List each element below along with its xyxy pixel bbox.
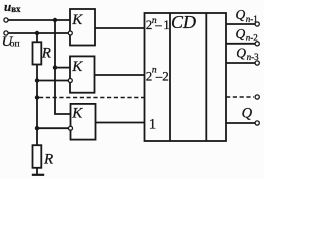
- output terminal Qn-2: [255, 42, 259, 46]
- encoder CD block: [145, 13, 227, 141]
- svg-text:–: –: [154, 17, 162, 32]
- label Qn-1: [236, 7, 258, 24]
- comparator K3: [71, 104, 96, 140]
- wire J2 to K2 input: [55, 67, 70, 69]
- input terminal U_op: [4, 31, 8, 35]
- wire R1 bottom down ladder: [36, 65, 38, 146]
- output terminal Q: [255, 121, 259, 125]
- inverting input circle K3: [69, 126, 73, 130]
- wire J6 to K3 inverting input: [37, 127, 69, 129]
- svg-text:1: 1: [163, 17, 170, 32]
- svg-text:-3: -3: [251, 52, 259, 62]
- comparator K1: [70, 9, 95, 46]
- node J4 tap to K2: [35, 78, 39, 82]
- label Qn-3: [236, 45, 259, 62]
- svg-text:Q: Q: [236, 45, 246, 60]
- wire output Qn-3: [226, 62, 255, 64]
- svg-text:оп: оп: [10, 40, 20, 50]
- comparator K2: [70, 56, 95, 92]
- svg-text:Q: Q: [236, 26, 246, 41]
- svg-text:-1: -1: [250, 14, 257, 24]
- node J1 on u_vx wire: [53, 18, 57, 22]
- wire output Qn-2: [226, 43, 255, 45]
- output terminal dashed: [255, 95, 259, 99]
- node J2 feed K2: [53, 65, 57, 69]
- node J6 tap to K3: [35, 126, 39, 130]
- svg-text:–2: –2: [155, 69, 169, 84]
- pin label 2^n-1: [146, 16, 170, 32]
- wire K2 output: [95, 74, 145, 76]
- svg-text:K: K: [71, 59, 83, 75]
- node J5 tap dashed: [35, 95, 39, 99]
- svg-text:R: R: [43, 152, 53, 168]
- label u_vx: [4, 0, 21, 14]
- wire dashed omitted comparators: [39, 97, 145, 99]
- label Qn-2: [236, 26, 258, 43]
- pin label 2^n-2: [146, 66, 169, 84]
- wire R2 to ground: [36, 168, 38, 175]
- label U_op: [2, 34, 20, 50]
- inverting input circle K1: [68, 31, 72, 35]
- svg-text:K: K: [71, 106, 83, 122]
- wire K1 output: [95, 27, 145, 29]
- wire ladder stub to R1: [36, 33, 38, 42]
- wire output dashed omitted: [226, 96, 254, 98]
- svg-text:u: u: [4, 0, 11, 14]
- resistor R2: [33, 145, 42, 168]
- inverting input circle K2: [68, 79, 72, 83]
- svg-text:K: K: [71, 12, 83, 28]
- resistor R1: [33, 42, 42, 64]
- wire u_vx bus: [8, 19, 70, 21]
- svg-text:Q: Q: [236, 7, 246, 22]
- ground: [32, 174, 44, 176]
- svg-text:1: 1: [149, 117, 157, 133]
- wire output Qn-1: [226, 23, 255, 25]
- wire J4 to K2 inverting input: [37, 80, 69, 82]
- svg-text:вх: вх: [11, 4, 21, 14]
- svg-text:-2: -2: [250, 33, 257, 43]
- wire output Q: [226, 122, 255, 124]
- output terminal Qn-1: [255, 22, 259, 26]
- svg-text:R: R: [41, 46, 51, 62]
- input terminal u_vx: [4, 18, 8, 22]
- node J3 top of ladder: [35, 31, 39, 35]
- CD internal divider right: [205, 13, 207, 141]
- wire u_vx vertical drop: [55, 20, 70, 114]
- svg-text:Q: Q: [242, 106, 253, 122]
- output terminal Qn-3: [255, 61, 259, 65]
- wire K3 output: [96, 122, 145, 124]
- CD internal divider left: [169, 13, 171, 141]
- svg-text:CD: CD: [171, 12, 196, 32]
- wire U_op to K1 inverting input: [8, 32, 68, 34]
